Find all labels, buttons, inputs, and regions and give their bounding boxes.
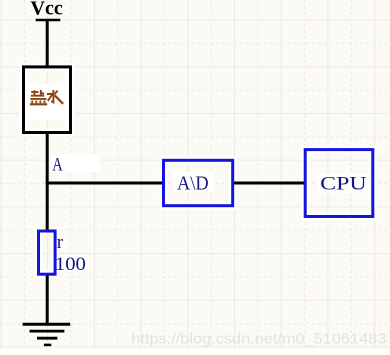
svg-text:100: 100	[55, 254, 86, 275]
svg-text:CPU: CPU	[320, 175, 367, 195]
svg-text:r: r	[57, 232, 64, 253]
svg-text:A: A	[52, 154, 63, 175]
svg-text:A\D: A\D	[177, 173, 209, 195]
svg-text:https://blog.csdn.net/m0_51061: https://blog.csdn.net/m0_51061483	[131, 331, 386, 348]
svg-text:Vcc: Vcc	[31, 0, 63, 19]
